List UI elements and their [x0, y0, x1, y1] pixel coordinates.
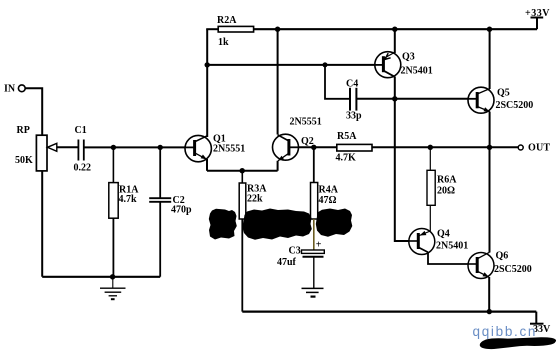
resistor R6A 20ohm: [427, 147, 457, 205]
wire Q3 base line: [207, 64, 375, 66]
svg-text:47Ω: 47Ω: [319, 195, 337, 206]
svg-text:20Ω: 20Ω: [437, 186, 455, 197]
node R1A tap: [111, 145, 116, 150]
transistor Q2 2N5551: [273, 117, 322, 161]
redaction blob right: [316, 209, 353, 237]
redaction blob middle: [242, 209, 311, 240]
svg-text:4.7k: 4.7k: [119, 194, 138, 205]
wire Q2 emitter down: [277, 161, 279, 171]
node Q3 emitter on rail: [392, 27, 397, 32]
wire Q4 collector to Q6 base: [428, 252, 468, 264]
node Q5 emitter / Q6 collector on out line: [487, 145, 492, 150]
capacitor C2 470p: [149, 147, 192, 215]
+33V supply terminal: [525, 8, 550, 29]
wire R3A bottom to negative rail: [241, 219, 243, 312]
resistor R4A 47ohm: [311, 147, 339, 219]
svg-text:OUT: OUT: [528, 143, 550, 154]
wire C2 bottom: [159, 202, 161, 277]
wire R5A to OUT: [372, 146, 518, 148]
svg-text:2N5401: 2N5401: [401, 66, 433, 77]
wire Q2 collector vertical: [277, 29, 279, 134]
wire Q3 emitter to rail: [394, 29, 396, 53]
wire Q6 emitter to bottom rail: [488, 277, 490, 312]
wire wiper to C1: [57, 146, 79, 148]
svg-text:+: +: [316, 240, 322, 251]
wire C3 to ground: [313, 257, 315, 289]
redaction blob left: [209, 209, 237, 240]
wire top +33V rail left segment: [206, 28, 218, 30]
capacitor C1 0.22: [74, 125, 92, 174]
node emitter rail / R3A: [240, 168, 245, 173]
svg-text:Q5: Q5: [497, 88, 510, 99]
wire Q5 collector vertical: [489, 29, 491, 89]
wire R6A bottom to Q4 emitter: [429, 205, 431, 231]
svg-text:+33V: +33V: [525, 8, 550, 19]
svg-text:47uf: 47uf: [277, 257, 297, 268]
wire bottom -33V rail: [242, 311, 536, 313]
svg-text:C1: C1: [75, 125, 87, 136]
wire Q2 base to R5A: [299, 146, 337, 148]
svg-text:2SC5200: 2SC5200: [494, 264, 532, 275]
node Q3 collector / C4 / Q5 base junction: [392, 96, 397, 101]
resistor R1A 4.7k: [109, 147, 139, 218]
svg-text:4.7K: 4.7K: [336, 153, 357, 164]
svg-text:0.22: 0.22: [74, 163, 92, 174]
node Q1 collector / Q3 base tap: [205, 62, 210, 67]
transistor Q4 2N5401: [409, 229, 468, 255]
wire RP bottom down: [41, 171, 43, 277]
svg-text:2N5401: 2N5401: [436, 241, 468, 252]
capacitor C3 47uf electrolytic: [277, 240, 324, 269]
resistor R3A 22k: [239, 171, 267, 219]
svg-text:R6A: R6A: [437, 175, 457, 186]
wire Q3 collector down to Q4 base: [395, 77, 410, 241]
svg-text:Q4: Q4: [437, 229, 450, 240]
wire C1 to Q1 base: [84, 146, 185, 148]
resistor R2A: [217, 15, 254, 48]
ground signal: [100, 277, 126, 299]
svg-text:50K: 50K: [15, 155, 33, 166]
node Q5 collector on rail: [487, 27, 492, 32]
node Q2 collector on rail: [275, 27, 280, 32]
potentiometer RP 50K: [15, 125, 57, 171]
transistor Q5 2SC5200: [468, 87, 533, 113]
transistor Q1 2N5551: [185, 133, 246, 162]
svg-text:1k: 1k: [218, 37, 229, 48]
wire Q1 collector vertical: [206, 29, 208, 137]
transistor Q3 2N5401: [375, 52, 433, 78]
wire signal ground bottom: [42, 276, 160, 278]
wire R4A bottom to C3: [313, 219, 315, 250]
redaction blob bottom right: [480, 337, 556, 349]
svg-text:2N5551: 2N5551: [213, 144, 245, 155]
svg-text:Q6: Q6: [496, 251, 509, 262]
svg-text:C4: C4: [346, 79, 358, 90]
node C4 tap on Q3 base line: [323, 62, 328, 67]
wire Q6 collector to OUT line: [489, 147, 491, 252]
ground below C3: [302, 288, 324, 296]
wire IN to RP top: [25, 88, 42, 135]
svg-text:RP: RP: [17, 125, 30, 136]
svg-text:R2A: R2A: [217, 15, 237, 26]
node ground junction: [110, 274, 115, 279]
IN terminal: [4, 84, 25, 95]
node Q6 emitter on bottom rail: [487, 309, 492, 314]
svg-text:Q3: Q3: [402, 52, 415, 63]
node C2 tap: [158, 145, 163, 150]
svg-text:22k: 22k: [247, 194, 263, 205]
OUT terminal: [518, 143, 550, 154]
wire R1A bottom: [112, 218, 114, 277]
transistor Q6 2SC5200: [468, 251, 532, 279]
svg-text:Q2: Q2: [301, 136, 314, 147]
node R6A tap on out line: [428, 145, 433, 150]
svg-text:qqibb.cn: qqibb.cn: [473, 324, 538, 339]
svg-text:R5A: R5A: [337, 131, 357, 142]
wire top +33V rail right segment: [254, 28, 537, 30]
svg-text:2N5551: 2N5551: [290, 117, 322, 128]
wire Q1 emitter down: [206, 159, 208, 171]
wire diff pair emitter rail: [207, 170, 278, 172]
wire Q5 emitter to OUT line: [489, 112, 491, 148]
wire C4 to Q5 base: [356, 98, 468, 100]
wire C4 left stub: [325, 65, 350, 99]
-33V supply terminal: [530, 312, 551, 335]
svg-text:C3: C3: [289, 246, 301, 257]
svg-text:IN: IN: [4, 84, 16, 95]
svg-text:R4A: R4A: [319, 185, 339, 196]
node feedback R4A tap: [311, 145, 316, 150]
capacitor C4 33p: [346, 79, 362, 122]
svg-text:470p: 470p: [171, 205, 192, 216]
svg-text:33p: 33p: [346, 111, 362, 122]
resistor R5A 4.7K: [336, 131, 373, 164]
svg-text:2SC5200: 2SC5200: [496, 100, 534, 111]
